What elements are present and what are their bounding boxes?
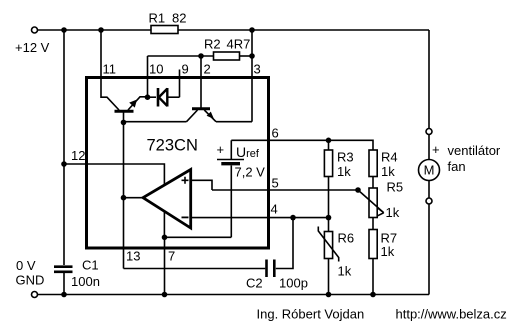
wire base column	[123, 122, 125, 197]
label credit author	[257, 307, 365, 322]
svg-text:M: M	[424, 163, 435, 178]
svg-text:13: 13	[126, 249, 140, 264]
wire ground rail	[38, 294, 430, 296]
node pin5 wiper x358	[355, 187, 361, 193]
svg-text:9: 9	[182, 62, 189, 77]
wire R5 to R7	[372, 218, 374, 230]
node gnd x328.5	[326, 292, 332, 298]
node R2 left x201	[198, 53, 204, 59]
terminal GND	[32, 292, 38, 298]
svg-text:7,2 V: 7,2 V	[235, 165, 266, 180]
capacitor C2	[124, 218, 308, 291]
label 0V GND	[16, 258, 45, 288]
svg-text:fan: fan	[448, 159, 466, 174]
pin 5	[212, 176, 358, 191]
wire R2 left	[148, 55, 214, 57]
motor M1	[419, 142, 440, 181]
svg-text:100n: 100n	[71, 274, 100, 289]
svg-text:http://www.belza.cz: http://www.belza.cz	[396, 307, 507, 322]
resistor R4	[369, 150, 398, 180]
label +12V	[15, 40, 50, 55]
svg-text:1k: 1k	[386, 205, 400, 220]
svg-text:GND: GND	[16, 273, 45, 288]
svg-text:11: 11	[103, 62, 117, 77]
wire left branch to C1	[63, 30, 65, 265]
svg-text:C1: C1	[82, 258, 99, 273]
svg-text:100p: 100p	[279, 276, 308, 291]
svg-text:R6: R6	[338, 231, 355, 246]
resistor R1	[149, 11, 187, 34]
capacitor C1	[54, 258, 100, 295]
svg-text:0 V: 0 V	[16, 258, 36, 273]
node vminus y237	[162, 235, 168, 241]
svg-text:12: 12	[71, 148, 85, 163]
svg-text:Ing. Róbert Vojdan: Ing. Róbert Vojdan	[257, 307, 365, 322]
node Q1 emitter y97	[145, 94, 151, 100]
svg-text:7: 7	[168, 249, 175, 264]
wire op-amp output	[124, 197, 144, 199]
svg-text:1k: 1k	[338, 264, 352, 279]
pin 6	[231, 126, 328, 141]
svg-text:1k: 1k	[381, 164, 395, 179]
node top rail x64	[61, 27, 67, 33]
pin 3	[252, 30, 261, 122]
svg-text:2: 2	[204, 62, 211, 77]
wire Q2 emitter to pin3	[216, 121, 252, 123]
pin 4	[191, 202, 329, 218]
node op-amp output x123.5	[121, 195, 127, 201]
svg-text:10: 10	[149, 62, 163, 77]
op-amp A1	[143, 170, 191, 229]
terminal motor bottom	[426, 198, 432, 204]
svg-text:4R7: 4R7	[227, 37, 251, 52]
svg-text:R2: R2	[204, 37, 221, 52]
pin 10	[148, 56, 164, 97]
terminal +12V	[32, 27, 38, 33]
battery Uref	[217, 140, 266, 237]
node top rail x101	[98, 27, 104, 33]
svg-text:3: 3	[254, 62, 261, 77]
op-amp U1 box 723CN	[87, 78, 269, 249]
thermistor R6	[318, 218, 354, 295]
wire motor drop	[428, 30, 430, 129]
pin 9	[180, 62, 189, 98]
diode D1	[148, 88, 180, 107]
wire top rail right	[178, 29, 429, 31]
svg-text:ventilátor: ventilátor	[448, 143, 501, 158]
wire R4 to R5	[372, 177, 374, 189]
node gnd x164.5	[162, 292, 168, 298]
svg-text:1k: 1k	[381, 244, 395, 259]
node Q1 base x123.5	[121, 120, 127, 126]
transistor Q1	[115, 97, 146, 123]
pin 7	[165, 237, 176, 294]
node R2 right x252	[249, 53, 255, 59]
svg-text:C2: C2	[246, 276, 263, 291]
svg-text:R5: R5	[387, 180, 404, 195]
node gnd x64	[61, 292, 67, 298]
svg-text:+: +	[432, 142, 440, 157]
label ventilator fan	[448, 143, 501, 174]
label credit url	[396, 307, 507, 322]
wire top rail left	[38, 29, 152, 31]
wire R2 right	[240, 55, 253, 57]
pin 13	[124, 198, 141, 269]
svg-text:5: 5	[272, 176, 279, 191]
wire pin6 to R4	[329, 140, 374, 150]
svg-text:4: 4	[271, 202, 278, 217]
pin 2	[201, 56, 211, 108]
pin 12	[64, 148, 164, 186]
node gnd x373	[370, 292, 376, 298]
svg-text:+12 V: +12 V	[15, 40, 50, 55]
node pin4 x328.5	[326, 215, 332, 221]
wire op-amp vminus feed	[163, 212, 165, 238]
wire battery minus to pin7 node	[165, 236, 232, 238]
svg-text:6: 6	[272, 126, 279, 141]
resistor R2	[204, 37, 250, 61]
transistor Q2	[187, 109, 217, 122]
svg-text:R4: R4	[381, 150, 398, 165]
wire motor bottom lead	[428, 181, 430, 199]
potentiometer R5	[358, 180, 403, 221]
wire motor return	[428, 204, 430, 295]
node pin4 x293	[290, 215, 296, 221]
wire R3 bottom column	[328, 177, 330, 218]
node top rail x252	[249, 27, 255, 33]
svg-text:R3: R3	[337, 150, 354, 165]
svg-text:1k: 1k	[337, 164, 351, 179]
svg-text:+: +	[217, 142, 225, 157]
resistor R3	[324, 140, 353, 179]
svg-text:R1: R1	[149, 11, 166, 26]
node pin6 x328.5	[326, 138, 332, 144]
wire op-amp noninv input	[191, 180, 212, 190]
node left branch x64 y164	[61, 161, 67, 167]
pin 11	[101, 30, 119, 110]
svg-text:723CN: 723CN	[147, 137, 198, 155]
wire motor top lead	[428, 135, 430, 160]
svg-text:82: 82	[172, 11, 186, 26]
resistor R7	[369, 230, 397, 295]
terminal motor top	[426, 129, 432, 135]
wire Q2 collector to base node	[124, 121, 187, 123]
